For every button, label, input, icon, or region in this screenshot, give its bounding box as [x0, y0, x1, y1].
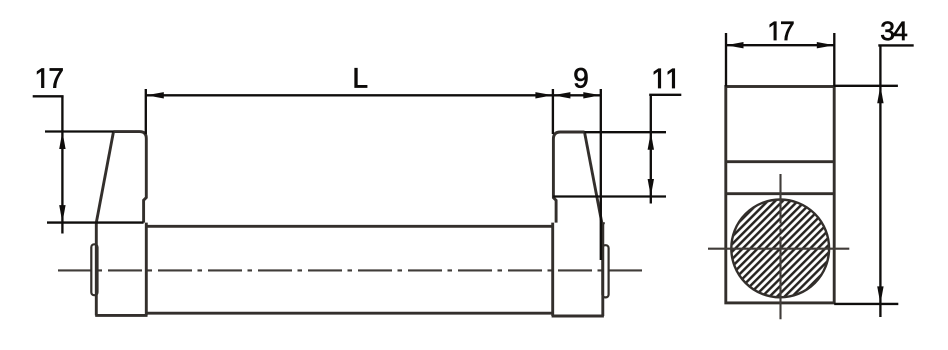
right foot hub bottom edge	[552, 315, 604, 318]
dimension 9 left arrow	[553, 92, 571, 98]
tube cross-section hatched circle	[731, 200, 829, 298]
end view dimension 17 line	[726, 44, 834, 46]
end view horizontal centerline	[708, 248, 849, 250]
dimension 17 top extension line	[45, 130, 114, 132]
end view vertical centerline	[779, 174, 781, 319]
dimension 11 shelf	[649, 94, 681, 96]
dimension 9 line	[553, 94, 601, 96]
end view upper inner edge	[726, 160, 834, 163]
end view body rectangle	[726, 87, 834, 303]
dimension 11 top arrow	[648, 132, 654, 150]
dimension L left arrow	[146, 92, 164, 98]
dimension L right arrow	[535, 92, 553, 98]
dimension 17 bottom arrow	[59, 205, 65, 223]
left foot plug capsule	[91, 244, 97, 295]
dimension 17 bottom extension line / hub shoulder	[47, 221, 144, 223]
end view dimension 17 left arrow	[726, 42, 744, 48]
dimension 11 bottom extension line	[553, 195, 666, 197]
dimension 17 top arrow	[59, 132, 65, 150]
tube top edge	[146, 225, 552, 228]
dimension 34 top arrow	[877, 86, 883, 104]
dimension 17 shelf	[33, 95, 64, 97]
end view dimension 17 left extension line	[725, 33, 727, 87]
right foot hub right edge	[601, 223, 604, 316]
dimension L left extension line	[145, 89, 147, 134]
dimension 11 top extension line	[585, 131, 667, 133]
left foot hub bottom edge	[95, 314, 147, 317]
dimension 34 bottom extension line	[834, 303, 898, 305]
dimension 17 label	[37, 68, 62, 87]
dimension 9 label	[575, 68, 588, 88]
dimension 9 right arrow	[583, 92, 601, 98]
dimension 11 line	[650, 95, 652, 204]
end view dimension 17 right arrow	[817, 42, 835, 48]
left foot neck outline	[114, 132, 147, 223]
dimension L line	[146, 94, 553, 96]
left foot slanted edge	[96, 132, 113, 223]
dimension 17 line	[61, 96, 63, 233]
right foot hub shoulder tick	[602, 222, 605, 224]
dimension 34 top extension line	[834, 85, 898, 87]
dimension L label	[355, 68, 367, 87]
end view lower inner edge	[726, 192, 834, 195]
right foot slanted edge	[585, 132, 602, 223]
tube bottom edge	[146, 312, 552, 315]
end view dimension 17 label	[770, 22, 794, 40]
dimension 34 label	[881, 21, 907, 40]
left foot hub left edge	[95, 223, 98, 316]
dimension 11 bottom arrow	[648, 179, 654, 197]
right foot plug capsule	[602, 245, 608, 297]
dimension 34 bottom arrow	[877, 286, 883, 304]
dimension 9 right extension line	[600, 89, 602, 260]
dimension 11 label	[654, 69, 675, 88]
left foot hub right edge / tube end	[145, 223, 148, 316]
right foot hub left edge / tube end	[551, 223, 554, 316]
right foot neck outline	[553, 132, 584, 223]
end view dimension 17 right extension line	[833, 33, 835, 87]
dimension 34 line	[879, 45, 881, 317]
handle axis centerline	[58, 269, 642, 271]
dimension 9 left extension line	[552, 89, 554, 134]
dimension 34 shelf	[878, 44, 913, 46]
